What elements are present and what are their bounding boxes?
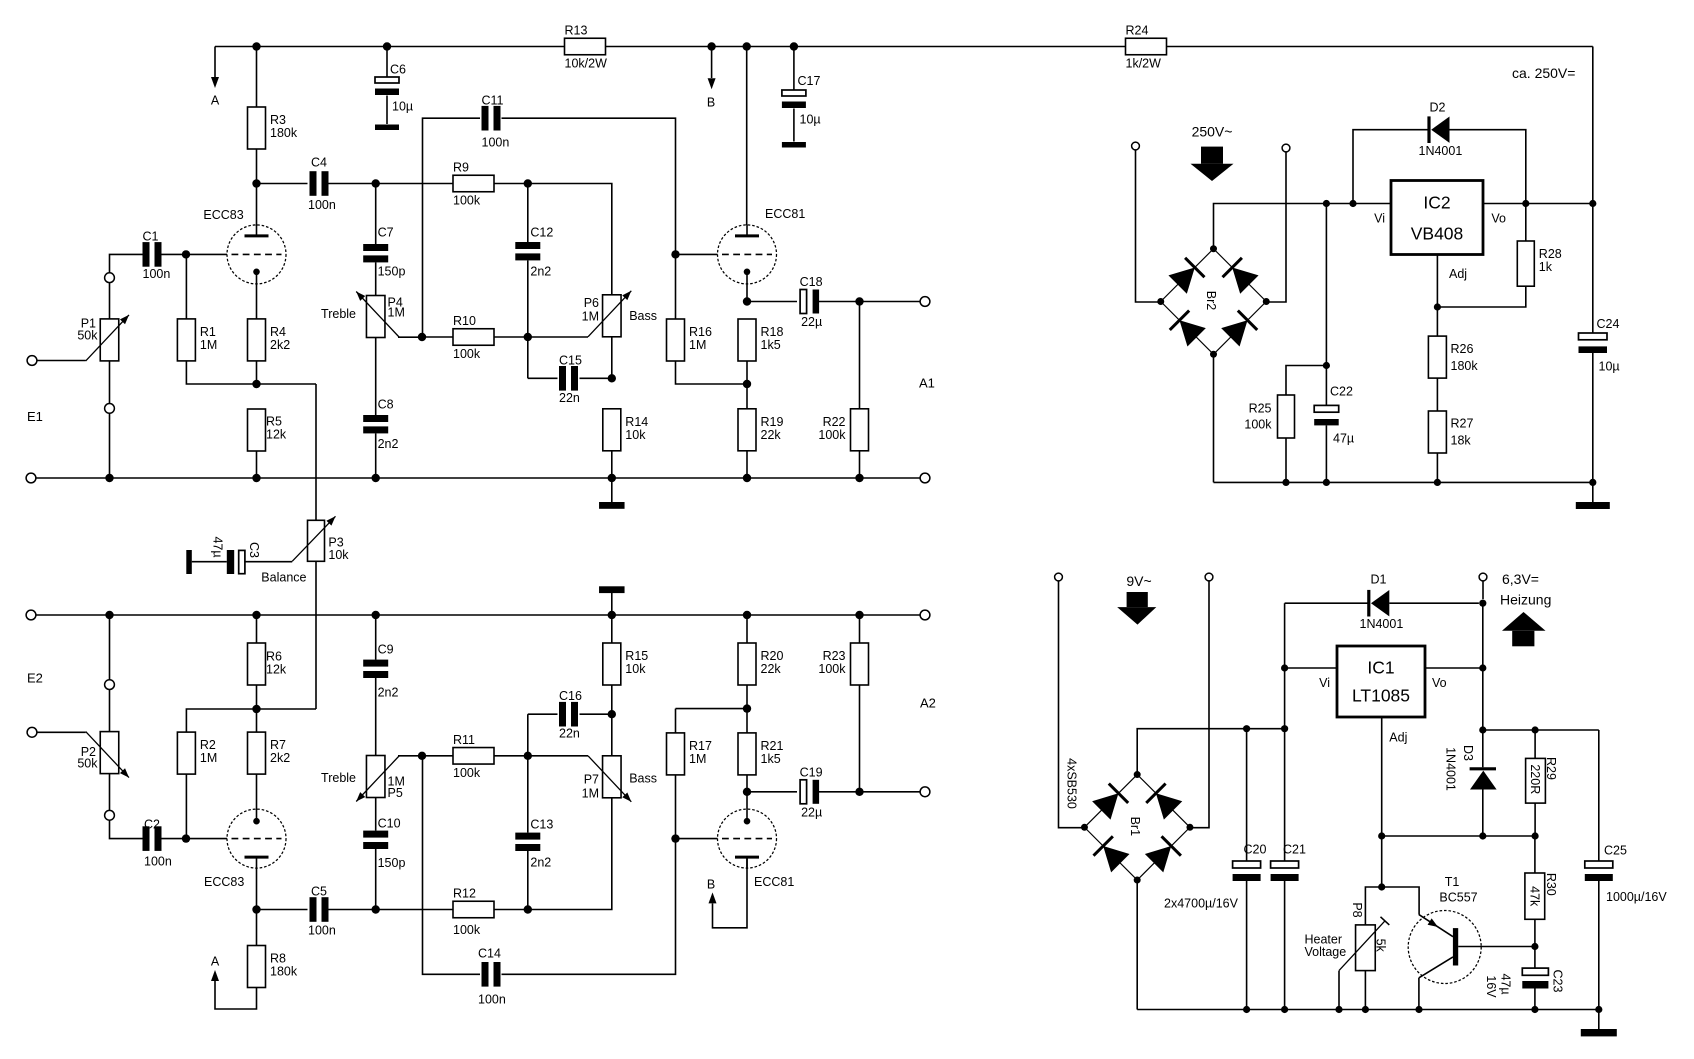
- junction heater node: [1378, 883, 1385, 890]
- capacitor C25: [1585, 843, 1668, 904]
- junction heater ground rail: [1595, 1006, 1602, 1013]
- capacitor C17: [782, 74, 821, 127]
- potentiometer P5: [321, 756, 405, 802]
- label 5k: [1374, 939, 1388, 953]
- wire ECC81 ch2 plate hook: [713, 857, 748, 928]
- junction grid node ch1: [182, 250, 190, 258]
- wire R27 bottom: [1436, 453, 1438, 482]
- svg-text:C23: C23: [1551, 970, 1565, 993]
- terminal E2 pin 1: [105, 680, 115, 690]
- resistor R29: [1526, 757, 1558, 803]
- label 9V~: [1126, 573, 1151, 589]
- svg-text:Adj: Adj: [1389, 730, 1407, 744]
- svg-text:22µ: 22µ: [801, 805, 822, 819]
- junction C20 top: [1243, 725, 1250, 732]
- wire C1 to grid node: [161, 253, 187, 255]
- wire to C16: [528, 713, 558, 715]
- wire C3 to P3 wiper: [245, 561, 292, 563]
- wire top B+ rail: [215, 46, 1593, 48]
- wire Vo to R29/C25: [1483, 729, 1599, 731]
- svg-text:1M: 1M: [582, 786, 599, 800]
- potentiometer P2: [77, 732, 129, 778]
- junction ECC81 grid node ch1: [671, 250, 679, 258]
- label 250V~: [1192, 123, 1233, 139]
- svg-text:100k: 100k: [818, 662, 846, 676]
- svg-text:C3: C3: [247, 542, 261, 558]
- wire C10 to P5: [375, 798, 377, 831]
- resistor R4: [248, 319, 291, 361]
- wire T1 base lead: [1458, 946, 1535, 948]
- label R26: [1451, 342, 1479, 373]
- junction R23 bottom node: [855, 788, 863, 796]
- svg-text:Voltage: Voltage: [1305, 945, 1347, 959]
- wire R20 top: [746, 615, 748, 643]
- svg-text:A: A: [211, 93, 220, 107]
- wire D1 right leg: [1389, 602, 1479, 604]
- svg-text:C14: C14: [478, 946, 501, 960]
- capacitor C22: [1314, 384, 1354, 445]
- junction treble wiper node ch2: [418, 752, 426, 760]
- resistor R1: [177, 319, 217, 361]
- wire Adj down to heater node: [1381, 836, 1383, 887]
- capacitor C15: [559, 353, 582, 405]
- svg-text:10k/2W: 10k/2W: [565, 57, 608, 71]
- wire R22 top lead: [859, 302, 861, 410]
- wire P7 top: [611, 714, 613, 756]
- junction Adj node: [1434, 303, 1441, 310]
- wire P4 bottom to C8: [375, 338, 377, 416]
- wire R23 top: [859, 615, 861, 643]
- wire R9 to node: [494, 183, 528, 185]
- wire E1 pin2 to P1: [109, 361, 111, 404]
- wire R8 bottom hook: [215, 981, 257, 1009]
- svg-text:1N4001: 1N4001: [1419, 144, 1463, 158]
- junction D3 bottom: [1479, 832, 1486, 839]
- svg-text:100n: 100n: [482, 135, 510, 149]
- junction Vi IC1: [1281, 664, 1288, 671]
- junction R9 right node: [524, 179, 532, 187]
- svg-text:180k: 180k: [270, 964, 298, 978]
- label Heater Voltage: [1305, 932, 1347, 959]
- capacitor C20: [1233, 842, 1267, 881]
- wire C12 node down: [527, 337, 529, 378]
- wire C9 to bus: [375, 615, 377, 660]
- junction D2 left: [1349, 200, 1356, 207]
- svg-text:VB408: VB408: [1411, 224, 1464, 244]
- svg-text:2x4700µ/16V: 2x4700µ/16V: [1164, 896, 1239, 910]
- svg-text:50k: 50k: [77, 756, 98, 770]
- resistor R17: [667, 733, 712, 775]
- svg-text:Treble: Treble: [321, 771, 356, 785]
- svg-text:180k: 180k: [1451, 359, 1479, 373]
- wire Br2 minus down: [1213, 354, 1215, 482]
- ground: [375, 125, 399, 131]
- svg-text:6,3V=: 6,3V=: [1502, 571, 1539, 587]
- capacitor C24: [1579, 317, 1620, 374]
- resistor R8: [248, 946, 298, 988]
- terminal 250V right: [1282, 144, 1290, 152]
- wire R7 top: [256, 709, 258, 732]
- wire P1 wiper lead: [37, 360, 86, 362]
- junction C15/P6/R14 node: [608, 374, 616, 382]
- svg-text:1k: 1k: [1539, 260, 1553, 274]
- terminal bus2 right: [920, 610, 930, 620]
- wire R3 top: [256, 47, 258, 108]
- label R5: [266, 414, 287, 441]
- capacitor C5: [308, 884, 336, 937]
- wire C4 out: [328, 183, 376, 185]
- wire R16 bottom: [676, 361, 748, 384]
- wire Br1 minus down: [1136, 880, 1138, 1010]
- wire bus2: [36, 614, 921, 616]
- wire C2 feed: [110, 820, 144, 839]
- wire cathode to C18: [747, 301, 797, 303]
- transistor T1: [1408, 875, 1481, 984]
- svg-text:2n2: 2n2: [378, 685, 399, 699]
- junction bus2: [105, 611, 113, 619]
- svg-text:50k: 50k: [77, 328, 98, 342]
- wire heater gnd stub: [1598, 1010, 1600, 1030]
- junction heater ground rail: [1243, 1006, 1250, 1013]
- svg-text:R11: R11: [453, 733, 475, 747]
- wire Vo line IC1: [1425, 667, 1483, 669]
- wire ECC83 cathode lead: [256, 283, 258, 320]
- wire Br1 plus up: [1137, 729, 1284, 775]
- capacitor C9: [363, 642, 398, 699]
- wire R23 bottom lead: [859, 685, 861, 792]
- capacitor C2: [143, 817, 172, 868]
- junction C17 rail: [790, 42, 798, 50]
- wire C4 node to R9: [376, 183, 453, 185]
- terminal A1: [920, 297, 930, 307]
- diode D2: [1419, 100, 1463, 158]
- svg-text:1k/2W: 1k/2W: [1126, 57, 1162, 71]
- potentiometer P3: [261, 516, 349, 584]
- junction R29 top: [1532, 726, 1539, 733]
- wire grid lead ch1 ECC83: [186, 253, 227, 255]
- wire 9V right to bridge: [1190, 581, 1209, 828]
- svg-text:ECC81: ECC81: [754, 875, 794, 889]
- svg-text:R3: R3: [270, 113, 286, 127]
- svg-text:10k: 10k: [328, 548, 349, 562]
- resistor R30: [1525, 873, 1558, 919]
- capacitor C3 plates: [227, 550, 245, 574]
- label 6,3V=: [1502, 571, 1539, 587]
- wire D3 top lead: [1482, 730, 1484, 767]
- potentiometer P8: [1339, 917, 1389, 971]
- arrow B ch2: [707, 877, 717, 903]
- capacitor C4: [308, 155, 336, 212]
- junction bus2: [372, 611, 380, 619]
- wire C14 right leg: [502, 839, 676, 975]
- wire C2 to grid node: [161, 838, 187, 840]
- svg-text:R20: R20: [761, 649, 784, 663]
- svg-text:R29: R29: [1544, 757, 1558, 780]
- wire C20 line top: [1246, 729, 1248, 861]
- wire cathode to node: [746, 284, 748, 302]
- wire right rail drop to Vo node: [1592, 47, 1594, 204]
- svg-text:100n: 100n: [478, 992, 506, 1006]
- junction HT ground rail: [1589, 479, 1596, 486]
- wire ECC83 ch2 cathode lead: [256, 774, 258, 811]
- junction R25 branch: [1323, 362, 1330, 369]
- svg-text:R9: R9: [453, 161, 469, 175]
- wire C18 out: [819, 301, 920, 303]
- svg-text:C6: C6: [390, 62, 406, 76]
- junction R22 top node: [855, 297, 863, 305]
- junction C4 out node: [372, 179, 380, 187]
- wire 250V right to bridge: [1266, 152, 1286, 302]
- potentiometer P4: [321, 292, 405, 338]
- svg-text:C2: C2: [144, 817, 160, 831]
- terminal E2 pin 2: [105, 810, 115, 820]
- svg-text:C20: C20: [1244, 842, 1267, 856]
- wire HT gnd stub: [1592, 482, 1594, 502]
- ground heater: [1581, 1029, 1617, 1036]
- wire E1 pin2 to bus: [109, 413, 111, 478]
- arrow 250V input: [1191, 147, 1234, 181]
- junction bus1: [105, 474, 113, 482]
- wire 6.3V terminal stub: [1482, 581, 1484, 599]
- svg-text:R12: R12: [453, 887, 476, 901]
- svg-text:Heizung: Heizung: [1500, 591, 1551, 607]
- svg-text:R14: R14: [625, 415, 648, 429]
- junction heater ground rail: [1335, 1006, 1342, 1013]
- junction Vo IC1: [1479, 664, 1486, 671]
- wire E2 pin1 to bus: [109, 615, 111, 680]
- svg-text:C18: C18: [800, 275, 823, 289]
- tube ECC83: [203, 208, 286, 284]
- svg-text:10k: 10k: [625, 662, 646, 676]
- wire R6 bottom: [256, 685, 258, 709]
- resistor R5: [248, 409, 266, 451]
- resistor R24: [1126, 24, 1167, 71]
- wire C25 line: [1598, 730, 1600, 861]
- junction cathode node ECC81 ch1: [743, 297, 751, 305]
- svg-text:A: A: [211, 954, 220, 968]
- resistor R21: [738, 733, 783, 775]
- wire cathode to C19: [747, 791, 797, 793]
- terminal 250V left: [1132, 142, 1140, 150]
- wire C25 bottom: [1598, 881, 1600, 1010]
- svg-text:2k2: 2k2: [270, 338, 290, 352]
- svg-text:1M: 1M: [200, 751, 217, 765]
- svg-text:R10: R10: [453, 314, 476, 328]
- svg-text:5k: 5k: [1374, 939, 1388, 953]
- svg-text:Vo: Vo: [1491, 212, 1506, 226]
- wire Vi line IC1: [1285, 667, 1337, 669]
- wire balance bottom link: [315, 561, 317, 709]
- svg-text:C5: C5: [311, 884, 327, 898]
- svg-text:R28: R28: [1539, 247, 1562, 261]
- svg-text:P5: P5: [388, 786, 403, 800]
- label A1: [919, 376, 935, 391]
- junction ECC81 grid node ch2: [671, 834, 679, 842]
- wire C20 line bottom: [1246, 881, 1248, 1010]
- wire Vo line: [1483, 203, 1593, 205]
- svg-text:R4: R4: [270, 325, 286, 339]
- terminal A2: [920, 787, 930, 797]
- wire heater node left: [1365, 887, 1381, 925]
- svg-text:180k: 180k: [270, 126, 298, 140]
- svg-text:C4: C4: [311, 155, 327, 169]
- wire node to P6 top: [528, 184, 612, 295]
- wire node to P7 bottom: [528, 798, 612, 909]
- wire R30 bottom lead: [1534, 919, 1536, 946]
- wire grid lead ch2 ECC83: [186, 838, 227, 840]
- junction ECC81 plate feed: [743, 42, 751, 50]
- arrow A (to heater supply) ch1: [211, 47, 220, 108]
- wire C16 right: [580, 713, 612, 715]
- svg-text:C16: C16: [559, 689, 582, 703]
- svg-text:ca. 250V=: ca. 250V=: [1512, 65, 1575, 81]
- svg-text:C22: C22: [1330, 384, 1353, 398]
- label Vi IC1: [1319, 676, 1330, 690]
- wire C13 node up: [527, 714, 529, 756]
- junction R11 node: [524, 752, 532, 760]
- svg-text:100k: 100k: [453, 347, 481, 361]
- label 4xSB530: [1065, 758, 1079, 809]
- label E2: [27, 671, 43, 686]
- svg-text:1N4001: 1N4001: [1443, 747, 1457, 791]
- junction C21 top: [1281, 725, 1288, 732]
- wire C5 node to R12: [376, 909, 453, 911]
- label Heizung: [1500, 591, 1551, 607]
- terminal bus2 left: [26, 610, 36, 620]
- wire R22 bottom: [859, 451, 861, 478]
- capacitor C8: [363, 397, 398, 451]
- wire C14 left leg: [423, 756, 481, 975]
- svg-text:Bass: Bass: [629, 309, 657, 323]
- wire C8 to bus: [375, 433, 377, 478]
- resistor R22: [818, 409, 868, 451]
- svg-text:Vi: Vi: [1319, 676, 1330, 690]
- svg-text:9V~: 9V~: [1126, 573, 1151, 589]
- resistor R26: [1428, 336, 1446, 378]
- wire to C15: [528, 377, 558, 379]
- wire cathode node ch2: [186, 709, 316, 732]
- svg-text:Vi: Vi: [1374, 212, 1385, 226]
- wire C13 bottom leg: [527, 851, 529, 910]
- svg-text:C1: C1: [143, 229, 159, 243]
- wire C23 top lead: [1534, 947, 1536, 969]
- svg-text:47µ: 47µ: [211, 536, 225, 557]
- wire T1 collector down: [1418, 978, 1420, 1010]
- wire bus1: [36, 477, 921, 479]
- svg-text:C13: C13: [530, 817, 553, 831]
- resistor R10: [453, 314, 494, 361]
- capacitor C18: [800, 275, 823, 329]
- wire D2 left leg: [1353, 130, 1429, 204]
- junction base/R30/C23: [1531, 943, 1538, 950]
- wire P8 wiper down: [1338, 971, 1340, 1010]
- op-amp IC1 regulator: [1337, 646, 1425, 717]
- wire R25 branch: [1286, 366, 1326, 396]
- wire R12 to node: [494, 909, 528, 911]
- svg-text:10k: 10k: [625, 428, 646, 442]
- svg-text:R21: R21: [761, 739, 784, 753]
- svg-text:C9: C9: [378, 642, 394, 656]
- capacitor C11: [482, 93, 510, 149]
- svg-text:150p: 150p: [378, 264, 406, 278]
- terminal E1 pin 2: [105, 404, 115, 414]
- svg-text:100k: 100k: [453, 923, 481, 937]
- wire C15 right: [580, 377, 612, 379]
- svg-text:IC2: IC2: [1423, 193, 1450, 213]
- svg-text:C25: C25: [1604, 843, 1627, 857]
- wire C6 to ground: [386, 96, 388, 125]
- wire D2 right leg: [1450, 130, 1526, 204]
- ground ch2: [599, 586, 625, 593]
- svg-text:IC1: IC1: [1367, 658, 1394, 678]
- junction bus2: [855, 611, 863, 619]
- resistor R11: [453, 733, 494, 780]
- junction cathode node ECC81 ch2: [743, 788, 751, 796]
- diode D3: [1443, 745, 1496, 791]
- svg-text:R26: R26: [1451, 342, 1474, 356]
- wire R14 bottom: [611, 451, 613, 478]
- resistor R20: [738, 643, 783, 685]
- wire cathode to node ch2: [746, 792, 748, 809]
- svg-text:1000µ/16V: 1000µ/16V: [1606, 890, 1667, 904]
- svg-text:12k: 12k: [266, 427, 287, 441]
- tube ECC81: [718, 809, 795, 889]
- wire C12 top leg: [527, 184, 529, 243]
- wire cathode node ch1: [186, 361, 316, 384]
- svg-text:ECC83: ECC83: [204, 875, 244, 889]
- junction HT ground rail: [1434, 479, 1441, 486]
- potentiometer P6: [582, 291, 657, 337]
- junction bus2: [252, 611, 260, 619]
- terminal P1 wiper ch1: [27, 356, 37, 366]
- resistor R13: [565, 24, 608, 71]
- resistor R2: [177, 732, 217, 774]
- svg-text:C15: C15: [559, 353, 582, 367]
- svg-text:1k5: 1k5: [761, 338, 781, 352]
- label Vi IC2: [1374, 212, 1385, 226]
- junction grid node ch2: [182, 834, 190, 842]
- wire ECC81 ch1 plate feed: [746, 47, 748, 226]
- svg-text:100n: 100n: [143, 267, 171, 281]
- svg-text:1M: 1M: [689, 338, 706, 352]
- wire wiper node to R11: [422, 755, 453, 757]
- svg-text:R25: R25: [1249, 401, 1272, 415]
- junction bus1: [372, 474, 380, 482]
- svg-text:2n2: 2n2: [530, 264, 551, 278]
- svg-text:Balance: Balance: [261, 570, 306, 584]
- wire P6 bottom: [611, 337, 613, 379]
- label 2x4700µ/16V: [1164, 896, 1239, 910]
- wire C11 right leg: [502, 118, 676, 254]
- wire C6 stub: [386, 47, 388, 78]
- junction bus1: [743, 474, 751, 482]
- wire D1 left leg: [1285, 602, 1369, 604]
- svg-text:R17: R17: [689, 739, 712, 753]
- svg-text:Br1: Br1: [1128, 817, 1142, 837]
- wire R28 bottom: [1437, 286, 1525, 307]
- wire C19 out: [819, 791, 920, 793]
- svg-text:C19: C19: [800, 765, 823, 779]
- label P8: [1350, 902, 1364, 917]
- resistor R28: [1517, 241, 1561, 286]
- svg-text:R23: R23: [823, 649, 846, 663]
- junction R29 bottom: [1532, 832, 1539, 839]
- svg-text:R19: R19: [761, 415, 784, 429]
- terminal bus1 left: [26, 473, 36, 483]
- svg-text:2n2: 2n2: [530, 855, 551, 869]
- svg-text:Treble: Treble: [321, 307, 356, 321]
- wire R25 bottom: [1285, 438, 1287, 482]
